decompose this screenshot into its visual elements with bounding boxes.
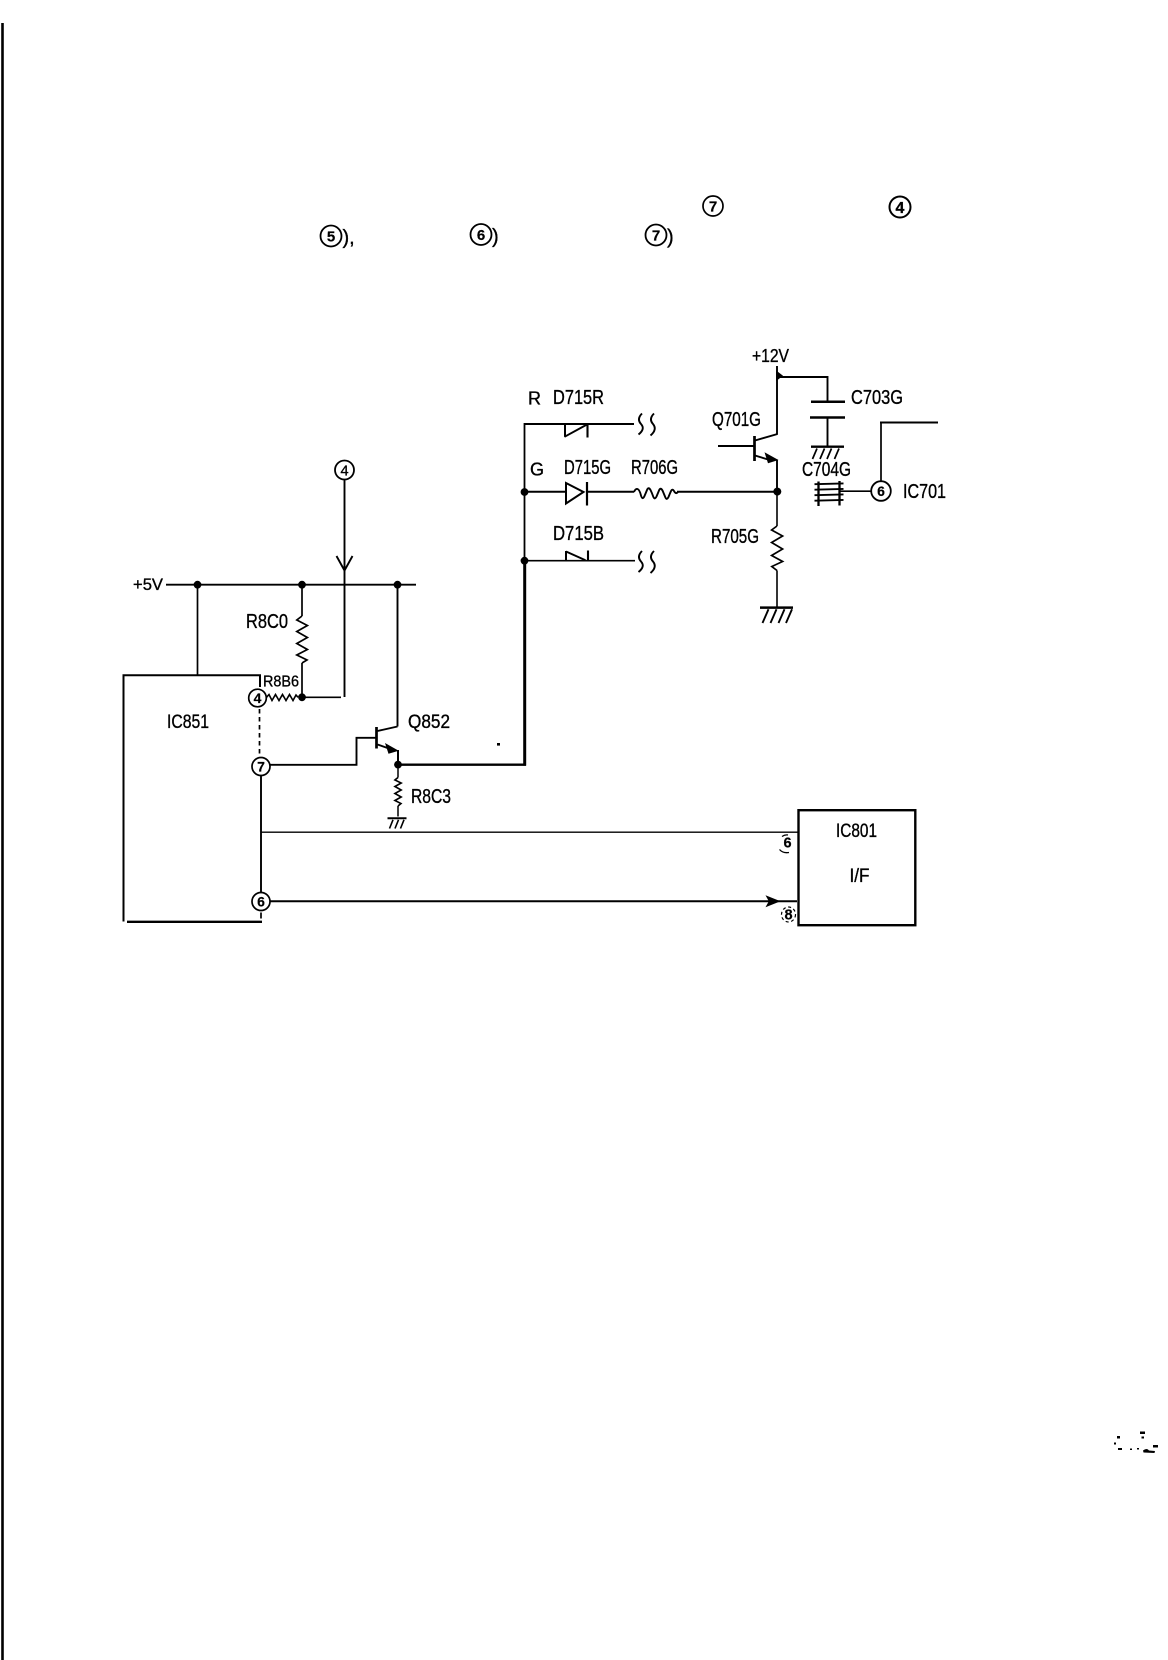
specks bottom right (1114, 1432, 1158, 1454)
ground R705G (760, 608, 793, 623)
wire row B (524, 560, 635, 562)
wire Q852 collector (397, 585, 399, 727)
resistor R705G (711, 492, 783, 607)
IC IC851 box (124, 675, 263, 922)
wire pin7 to Q852 base (270, 738, 376, 765)
svg-text:IC801: IC801 (836, 821, 877, 842)
svg-text:7: 7 (709, 199, 717, 216)
svg-text:4: 4 (896, 200, 905, 217)
wire R8B6 node to arrow (302, 696, 341, 698)
wire IC701 stub vertical (880, 423, 882, 482)
node 4 callout top (890, 197, 911, 218)
svg-text:+12V: +12V (752, 346, 789, 366)
wire Q852 emitter to node (397, 750, 399, 764)
wire row R (524, 423, 634, 425)
resistor R8C3 (395, 765, 451, 817)
svg-text:R705G: R705G (711, 526, 759, 548)
wire +5V rail (166, 584, 416, 586)
ground C703G (811, 447, 844, 459)
resistor R706G (634, 488, 677, 499)
arrowhead to IC801 pin8 (766, 895, 781, 907)
svg-text:6: 6 (257, 894, 265, 910)
svg-text:7: 7 (652, 228, 660, 245)
junction dot +5V mid (298, 581, 306, 589)
junction dot +5V left (194, 581, 202, 589)
junction dot rail B (521, 557, 529, 565)
svg-text:D715R: D715R (553, 387, 604, 409)
wire emitter node to rail (398, 764, 526, 766)
pin 6 IC851 (252, 893, 270, 911)
node 6 callout (471, 224, 499, 248)
svg-text:R: R (528, 389, 541, 409)
svg-text:G: G (530, 460, 544, 480)
svg-text:C703G: C703G (851, 387, 903, 409)
signal 4 arrowhead (337, 556, 353, 571)
dash below pin6 (260, 913, 262, 919)
wire row G mid (587, 491, 634, 493)
junction +12V branch (776, 371, 783, 382)
svg-text:I/F: I/F (850, 865, 870, 887)
transistor Q852 (377, 712, 451, 754)
wire RGB rail lower thick (523, 561, 526, 766)
ground R8C3 (388, 818, 407, 828)
svg-text:7: 7 (257, 759, 265, 775)
wire pin7 to pin6 (260, 776, 262, 893)
speck near Q852 (497, 743, 500, 746)
capacitor C703G (810, 387, 903, 418)
diode D715R (565, 424, 588, 438)
pin 8 IC801 (782, 907, 796, 924)
node 7 callout second (646, 225, 674, 249)
svg-text:6: 6 (783, 836, 791, 852)
diode D715G (566, 482, 587, 506)
svg-text:R706G: R706G (631, 457, 678, 479)
svg-text:4: 4 (340, 464, 348, 480)
wire Q701G emitter to node (776, 460, 778, 492)
pin 4 IC851 (249, 689, 267, 707)
wire row G right (677, 491, 777, 493)
dashed link pin4 to pin7 (259, 709, 261, 755)
pin 6 IC801 (780, 835, 792, 853)
pin 7 IC851 (252, 758, 270, 776)
wire +12V vertical (776, 366, 778, 435)
resistor R8C0 (246, 585, 307, 698)
svg-text:Q701G: Q701G (712, 409, 761, 431)
diode D715B (566, 551, 588, 562)
svg-text:D715B: D715B (553, 523, 604, 545)
svg-text:C704G: C704G (802, 459, 851, 481)
signal 4 callout circle (335, 461, 354, 480)
svg-text:+5V: +5V (133, 575, 164, 594)
junction dot R8C0 R8B6 (298, 693, 306, 701)
svg-text:6: 6 (477, 227, 485, 244)
svg-text:IC851: IC851 (167, 712, 209, 733)
break marks row B (639, 551, 655, 573)
wire +5V to IC851 (197, 585, 199, 675)
wire C704G to terminal 6 (840, 490, 872, 492)
wire to IC801 pin8 (270, 900, 797, 902)
resistor R8B6 (263, 674, 299, 701)
svg-text:5: 5 (327, 229, 335, 246)
svg-text:): ) (492, 226, 499, 248)
IC IC801 box (799, 810, 916, 925)
capacitor C704G (815, 481, 844, 506)
wire row G left (524, 491, 566, 493)
svg-text:4: 4 (254, 690, 262, 706)
break marks row R (639, 414, 655, 436)
svg-text:D715G: D715G (564, 457, 611, 479)
node 7 callout top (703, 196, 723, 216)
wire RGB rail upper (524, 423, 526, 561)
wire +12V to C703G (777, 377, 828, 401)
svg-text:6: 6 (877, 483, 885, 499)
junction dot rail G (521, 488, 529, 496)
svg-text:IC701: IC701 (903, 481, 946, 503)
signal 4 arrow line (344, 480, 346, 697)
svg-text:R8C0: R8C0 (246, 611, 288, 633)
svg-text:R8B6: R8B6 (263, 674, 299, 691)
wire IC701 stub horizontal (880, 422, 938, 424)
node 5 callout (321, 226, 355, 250)
wire to IC801 pin6 (261, 831, 798, 833)
junction dot Q852 emitter (394, 761, 402, 769)
svg-text:Q852: Q852 (408, 712, 450, 733)
svg-text:R8C3: R8C3 (411, 786, 451, 808)
transistor Q701G (712, 409, 779, 463)
junction dot +5V right (394, 581, 402, 589)
terminal 6 IC701 (871, 481, 891, 501)
junction dot node G out (773, 488, 781, 496)
wire C703G to ground (827, 418, 829, 447)
svg-text:): ) (667, 227, 674, 249)
svg-text:),: ), (343, 227, 355, 249)
